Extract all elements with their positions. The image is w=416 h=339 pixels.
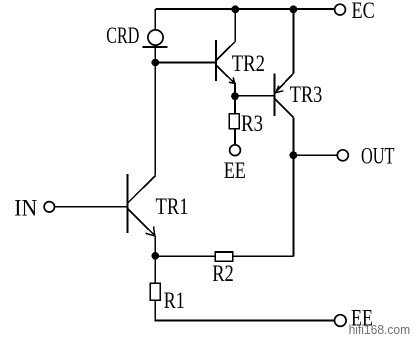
wire TR1 emitter to node C [154, 236, 156, 256]
svg-text:OUT: OUT [361, 144, 395, 169]
terminal IN [44, 202, 54, 212]
svg-text:EE: EE [224, 158, 246, 183]
svg-text:EC: EC [352, 0, 375, 23]
node junction top rail right [290, 5, 298, 13]
wire TR3 base [235, 95, 274, 97]
node junction top rail left [231, 5, 239, 13]
node A CRD-TR2 base [152, 59, 160, 67]
svg-text:R2: R2 [212, 261, 234, 286]
wire R2 right [233, 255, 294, 257]
svg-text:hifi168.com: hifi168.com [349, 323, 411, 337]
node C TR1 emitter [152, 252, 160, 260]
svg-text:IN: IN [14, 196, 37, 221]
transistor TR2 [216, 40, 235, 84]
wire TR2 base [155, 62, 216, 64]
wire OUT [293, 154, 337, 156]
wire node C to R1 [154, 256, 156, 283]
svg-text:TR1: TR1 [156, 194, 189, 219]
wire node A to TR1 collector [154, 63, 156, 176]
wire CRD bottom to node [154, 44, 156, 63]
wire top rail [155, 8, 336, 10]
transistor TR1 [127, 174, 155, 236]
node OUT junction [290, 151, 298, 159]
wire TR3 collector vertical to R2 [292, 118, 294, 257]
svg-text:R1: R1 [164, 288, 185, 313]
resistor R3 [229, 114, 239, 129]
resistor R1 [150, 283, 160, 300]
terminal EE lower [335, 315, 347, 327]
wire R3 to EE terminal [234, 129, 236, 145]
terminal OUT [337, 150, 348, 161]
node B TR2 emitter [231, 92, 239, 100]
terminal EE upper [230, 145, 241, 156]
wire TR2 emitter to node B [234, 83, 236, 97]
resistor R2 [215, 252, 232, 261]
transistor TR3 [274, 73, 293, 117]
terminal EC [335, 4, 346, 15]
wire TR3 emitter vertical [292, 9, 294, 73]
wire TR2 collector vertical [234, 9, 236, 42]
wire IN to TR1 base [55, 206, 128, 208]
svg-text:TR2: TR2 [232, 51, 265, 76]
svg-text:R3: R3 [241, 111, 263, 136]
diode CRD [143, 30, 168, 47]
svg-text:CRD: CRD [106, 23, 139, 48]
wire CRD top drop [154, 9, 156, 31]
wire R1 to bottom rail [155, 300, 334, 320]
svg-text:TR3: TR3 [290, 82, 323, 107]
wire node B to R3 [234, 96, 236, 114]
wire node C to R2 [155, 255, 215, 257]
